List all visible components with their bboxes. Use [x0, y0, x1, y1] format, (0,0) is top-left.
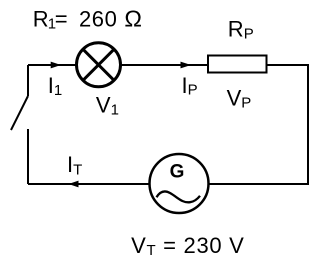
svg-text:RP: RP — [228, 16, 254, 42]
svg-text:IP: IP — [182, 73, 198, 99]
svg-text:V1: V1 — [96, 93, 119, 119]
svg-text:VT = 230 V: VT = 230 V — [131, 233, 244, 259]
svg-text:R1=260Ω: R1=260Ω — [33, 6, 142, 33]
svg-text:IT: IT — [67, 152, 82, 179]
svg-text:G: G — [170, 162, 185, 183]
svg-text:I1: I1 — [48, 73, 62, 99]
svg-text:VP: VP — [227, 85, 252, 111]
